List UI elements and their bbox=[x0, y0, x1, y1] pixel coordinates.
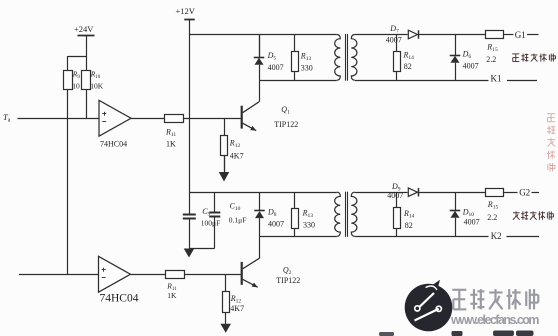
svg-text:4007: 4007 bbox=[268, 63, 284, 72]
svg-text:4007: 4007 bbox=[463, 61, 479, 70]
svg-text:2.2: 2.2 bbox=[487, 213, 497, 222]
svg-text:330: 330 bbox=[301, 64, 313, 73]
svg-text:10: 10 bbox=[72, 82, 80, 91]
svg-text:TIP122: TIP122 bbox=[276, 276, 300, 285]
svg-text:10K: 10K bbox=[90, 82, 104, 91]
svg-text:+12V: +12V bbox=[176, 6, 196, 16]
svg-text:330: 330 bbox=[303, 220, 315, 229]
svg-text:82: 82 bbox=[405, 221, 413, 230]
svg-text:G2: G2 bbox=[519, 187, 530, 197]
svg-text:1K: 1K bbox=[167, 291, 177, 300]
svg-text:4007: 4007 bbox=[268, 220, 284, 229]
svg-text:2.2: 2.2 bbox=[486, 55, 496, 64]
svg-text:1K: 1K bbox=[166, 139, 176, 148]
svg-text:0.1μF: 0.1μF bbox=[229, 215, 247, 224]
svg-text:4K7: 4K7 bbox=[230, 304, 244, 313]
svg-text:4007: 4007 bbox=[464, 217, 480, 226]
svg-text:www.elecfans.com: www.elecfans.com bbox=[450, 313, 540, 327]
svg-text:100μF: 100μF bbox=[201, 218, 220, 227]
svg-text:4K7: 4K7 bbox=[230, 152, 244, 161]
svg-text:TIP122: TIP122 bbox=[274, 120, 298, 129]
svg-text:+24V: +24V bbox=[74, 24, 94, 34]
svg-text:K2: K2 bbox=[491, 231, 502, 241]
svg-text:74HC04: 74HC04 bbox=[100, 293, 139, 305]
svg-text:82: 82 bbox=[404, 62, 412, 71]
svg-text:K1: K1 bbox=[491, 74, 502, 84]
svg-text:4007: 4007 bbox=[387, 191, 403, 200]
svg-text:G1: G1 bbox=[515, 30, 526, 40]
svg-text:4007: 4007 bbox=[386, 36, 402, 45]
svg-text:74HC04: 74HC04 bbox=[100, 139, 127, 148]
